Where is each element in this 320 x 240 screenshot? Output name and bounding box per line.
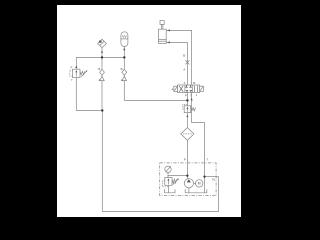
relief valve V1 adjustment arrow (81, 71, 87, 77)
wire: left branch vertical x=102 (101, 48, 103, 111)
white schematic page (57, 5, 241, 217)
wire: relief valve V1 inlet drop (75, 57, 77, 69)
wire: T return into tank2 (204, 177, 206, 193)
tank T1 (165, 189, 175, 193)
svg-text:P: P (185, 93, 187, 97)
arrowhead on bottom port line (167, 41, 170, 43)
arrow up below V2 (186, 115, 188, 117)
svg-text:B: B (98, 67, 100, 71)
DV1 right cell straight arrows (195, 86, 198, 92)
junction dots (101, 56, 206, 178)
wire: cylinder bottom port to valve A (166, 42, 187, 85)
shaft pump-motor (194, 182, 196, 184)
arrow into V1 (75, 66, 77, 68)
arrow up below check diamond (101, 50, 103, 52)
relief valve V1 body (73, 69, 80, 77)
wire: accumulator branch to P line (124, 99, 187, 101)
cylinder CYL1 rod (161, 24, 163, 29)
wire: V2 to filter (186, 113, 188, 128)
compensator valve V2 body (184, 106, 191, 113)
RV2 adjustment arrow (173, 179, 179, 185)
svg-text:T: T (207, 158, 209, 162)
svg-text:P: P (184, 158, 186, 162)
svg-text:B: B (193, 81, 195, 85)
tank T2 (185, 189, 207, 193)
directional valve DV1 body (178, 85, 200, 93)
accumulator ACC1 (121, 32, 128, 47)
svg-text:B: B (183, 54, 185, 58)
wire: top manifold horizontal y=57.4 (76, 56, 124, 58)
wire: gauge stub (167, 173, 169, 178)
RV2 spring (172, 179, 177, 183)
wire: V1 tank link horizontal (76, 110, 102, 112)
V2 pilot dashed (183, 104, 188, 109)
arrowhead on top port line (167, 29, 170, 31)
svg-text:A: A (99, 78, 101, 82)
DV1 left solenoid (174, 86, 178, 91)
wire: T stub below valve down then right (192, 93, 205, 177)
motor M1 (196, 180, 203, 187)
wire: outer return loop (102, 111, 218, 212)
pressure gauge G1 (165, 166, 171, 172)
throttle TH1 on A line (185, 60, 189, 64)
cylinder CYL1 body (159, 29, 167, 43)
wire: cylinder top port to valve B (166, 30, 191, 85)
arrow up below accumulator (123, 48, 125, 50)
relief valve RV2 body (165, 178, 172, 186)
wire: pump suction (188, 188, 190, 193)
arrow up on T stub (191, 98, 193, 101)
wire: gauge/relief branch to P line (168, 175, 187, 177)
relief valve V1 pilot dashed line (70, 70, 73, 76)
relief valve V1 spring (80, 71, 85, 74)
wire: accumulator branch vertical x=124.3 (123, 47, 125, 101)
svg-text:A: A (184, 81, 186, 85)
svg-text:A: A (121, 78, 123, 82)
cylinder CYL1 rod cap (160, 21, 164, 25)
wire: P stub below valve (186, 93, 188, 106)
coupling CP1 triangles on x=102 (100, 69, 105, 80)
DV1 right solenoid (200, 86, 204, 91)
pump P1 (184, 179, 193, 188)
V2 spring (191, 108, 196, 111)
cylinder CYL1 piston (159, 40, 167, 42)
svg-text:M: M (198, 182, 201, 186)
svg-text:Ta: Ta (212, 178, 215, 182)
wire: Ta branch to outer return (205, 176, 219, 178)
filter F1 (181, 128, 194, 141)
coupling CP2 triangles on x=124.3 (122, 69, 127, 80)
RV2 pilot dashed (162, 181, 168, 187)
svg-text:B: B (121, 67, 123, 71)
wire: RV2 drain to tank1 (167, 185, 169, 192)
svg-text:A: A (183, 68, 185, 72)
wire: filter to pump (186, 140, 188, 179)
power unit dashed box (160, 163, 216, 196)
DV1 centre cell closed ports (185, 85, 192, 93)
check valve CV1 (diamond with ball) (98, 39, 107, 48)
wire: V1 outlet down (75, 78, 77, 111)
DV1 left cell crossed arrows (179, 86, 183, 92)
